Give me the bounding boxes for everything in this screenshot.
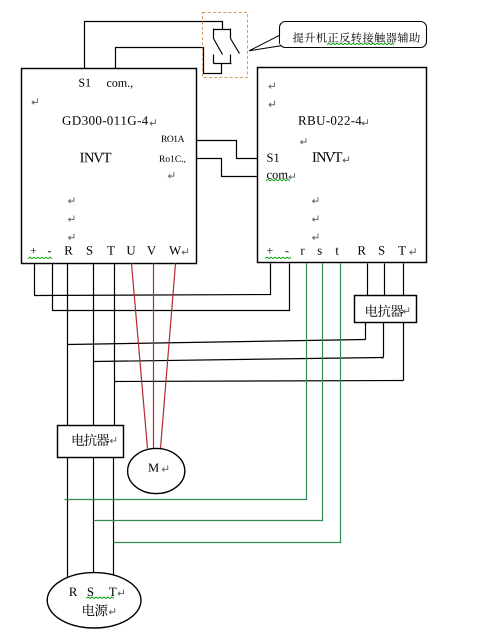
paragraph mark <box>118 589 123 595</box>
label INVT (U2) <box>313 152 343 162</box>
callout tail <box>249 35 283 51</box>
contactor K1 blade right <box>231 39 240 54</box>
wire com to contactor bottom <box>116 48 222 74</box>
wire reactor L1 out S <box>93 458 95 581</box>
power source label <box>83 604 107 616</box>
power terminal T <box>109 588 116 596</box>
squiggle under power S T <box>86 597 114 598</box>
label S1 (U2) <box>267 154 279 162</box>
paragraph mark <box>69 197 74 203</box>
terminal + (U1) <box>31 248 37 254</box>
wire RO1A to S1 (U2) <box>197 141 258 159</box>
contactor K1 bottom bar <box>214 63 232 65</box>
wire R (U2) to reactor L2 <box>367 264 369 296</box>
paragraph mark <box>32 98 37 104</box>
paragraph mark <box>343 156 348 162</box>
wire DC+ bus U1 to U2 <box>35 264 271 296</box>
contactor K1 bottom-right post <box>230 55 232 64</box>
wire s fan supply (green) <box>94 264 323 521</box>
terminal V (U1) <box>147 246 156 255</box>
paragraph mark <box>269 101 274 107</box>
paragraph mark <box>162 465 167 471</box>
contactor K1 top-left post <box>213 29 215 39</box>
paragraph mark <box>301 138 306 144</box>
paragraph mark <box>410 248 415 254</box>
wire branch R to reactor L2 <box>68 340 366 345</box>
callout bubble <box>280 22 427 48</box>
power terminal S <box>88 588 93 597</box>
wire DC- bus U1 to U2 <box>53 264 290 311</box>
cover tail base <box>280 36 284 45</box>
paragraph mark <box>182 248 187 254</box>
wire branch T to reactor L2 <box>115 381 404 382</box>
wire T (U2) to reactor L2 <box>403 264 405 296</box>
contactor K1 bottom-left post <box>213 55 215 64</box>
contactor K1 blade left <box>214 39 223 55</box>
dashed enclosure around contactor K1 <box>203 13 248 78</box>
terminal t (U2) <box>335 247 338 254</box>
reactor L1 box <box>58 426 124 458</box>
label com (U2) <box>267 173 288 179</box>
terminal W (U1) <box>169 246 181 255</box>
terminal + (U2) <box>267 248 273 254</box>
reactor L1 label <box>73 434 110 446</box>
terminal R (U2) <box>358 246 366 254</box>
wire reactor L2 out T <box>403 323 405 381</box>
grammar squiggle under callout text <box>327 43 394 44</box>
label com (U1) <box>107 81 132 89</box>
terminal R (U1) <box>65 246 73 254</box>
wire W phase to motor <box>161 264 176 449</box>
reactor L2 label <box>366 305 403 317</box>
label S1 (U1) <box>79 79 90 87</box>
power source ellipse <box>47 573 141 628</box>
terminal S (U2) <box>379 246 384 255</box>
terminal - (U1) <box>48 250 51 253</box>
wire reactor L1 out T <box>113 458 115 582</box>
paragraph mark <box>313 215 318 221</box>
paragraph mark <box>289 173 294 179</box>
wire S (U2) to reactor L2 <box>384 264 386 296</box>
paragraph mark <box>69 215 74 221</box>
paragraph mark <box>269 82 274 88</box>
paragraph mark <box>403 307 408 313</box>
paragraph mark <box>110 437 115 443</box>
reactor L2 box <box>355 296 417 323</box>
squiggle under +/- (U2) <box>265 257 291 258</box>
wire t fan supply (green) <box>114 264 341 543</box>
power terminal R <box>69 588 77 596</box>
wire S1 to contactor top <box>85 22 223 69</box>
inverter U1 GD300-011G-4 box <box>22 69 197 264</box>
contactor K1 top-right post <box>230 29 232 39</box>
terminal s (U2) <box>318 249 322 255</box>
terminal - (U2) <box>285 250 288 253</box>
wire U phase to motor <box>132 264 148 449</box>
squiggle under +/- (U1) <box>28 257 52 258</box>
paragraph mark <box>313 197 318 203</box>
paragraph mark <box>168 172 173 178</box>
terminal r (U2) <box>301 249 305 255</box>
motor label M <box>148 464 158 472</box>
pin label Ro1C <box>159 156 185 164</box>
label GD300-011G-4 <box>63 116 148 125</box>
braking unit U2 RBU-022-4 box <box>258 68 427 263</box>
wire r fan supply (green) <box>65 264 307 500</box>
label RBU-022-4 <box>298 116 361 125</box>
paragraph mark <box>313 234 318 240</box>
terminal U (U1) <box>127 246 136 255</box>
wire reactor L2 out R <box>365 323 367 340</box>
terminal S (U1) <box>87 246 92 255</box>
wire Ro1C to com (U2) <box>197 159 258 177</box>
wire branch S to reactor L2 <box>94 358 384 362</box>
wire reactor L2 out S <box>383 323 385 358</box>
squiggle under com <box>266 179 290 180</box>
paragraph mark <box>109 608 114 614</box>
contactor K1 top bar <box>214 29 231 31</box>
wire V phase to motor <box>153 264 155 449</box>
paragraph mark <box>69 234 74 240</box>
motor M <box>128 448 185 493</box>
wire T phase U1 to reactor L1 <box>114 264 116 426</box>
terminal T (U2) <box>398 246 405 254</box>
paragraph mark <box>362 119 367 125</box>
wire reactor L1 out R <box>67 458 69 581</box>
callout text: hoist fwd/rev contactor auxiliary <box>293 32 420 42</box>
paragraph mark <box>150 119 155 125</box>
label INVT (U1) <box>80 153 111 163</box>
terminal T (U1) <box>107 246 114 254</box>
pin label RO1A <box>161 136 184 142</box>
wire S phase U1 to reactor L1 <box>93 264 95 426</box>
wire R phase U1 to reactor L1 <box>67 264 69 426</box>
